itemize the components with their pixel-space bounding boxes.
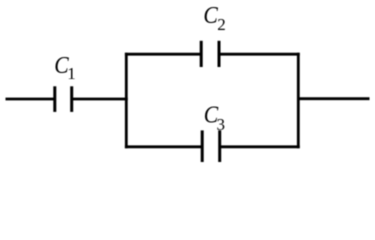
svg-text:C: C	[203, 2, 218, 30]
svg-text:3: 3	[217, 115, 226, 134]
svg-text:2: 2	[217, 15, 226, 34]
svg-text:1: 1	[67, 64, 76, 83]
